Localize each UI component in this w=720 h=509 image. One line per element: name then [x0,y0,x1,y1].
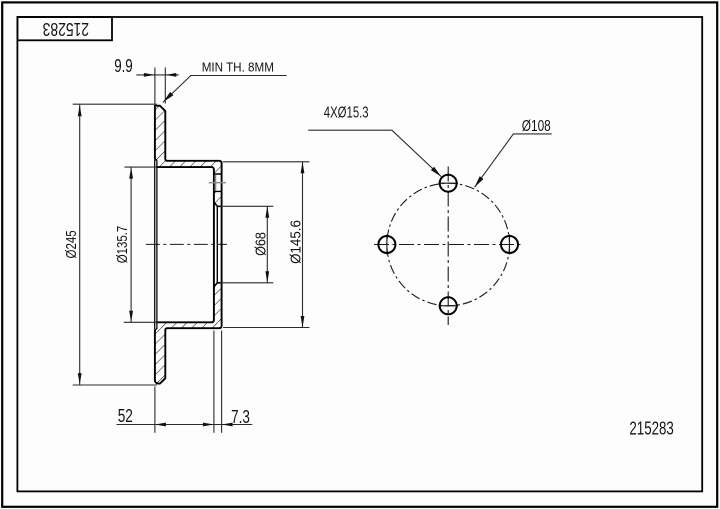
svg-text:215283: 215283 [43,18,89,38]
svg-text:Ø108: Ø108 [522,116,551,134]
svg-text:4XØ15.3: 4XØ15.3 [324,102,369,120]
svg-text:9.9: 9.9 [114,56,133,77]
svg-text:Ø145.6: Ø145.6 [288,220,305,264]
svg-text:Ø135.7: Ø135.7 [114,226,131,263]
svg-text:7.3: 7.3 [231,407,250,428]
svg-text:215283: 215283 [629,418,673,439]
svg-text:52: 52 [118,406,133,426]
svg-text:Ø245: Ø245 [62,230,79,258]
svg-text:MIN TH. 8MM: MIN TH. 8MM [202,60,274,75]
svg-text:Ø68: Ø68 [251,232,268,256]
